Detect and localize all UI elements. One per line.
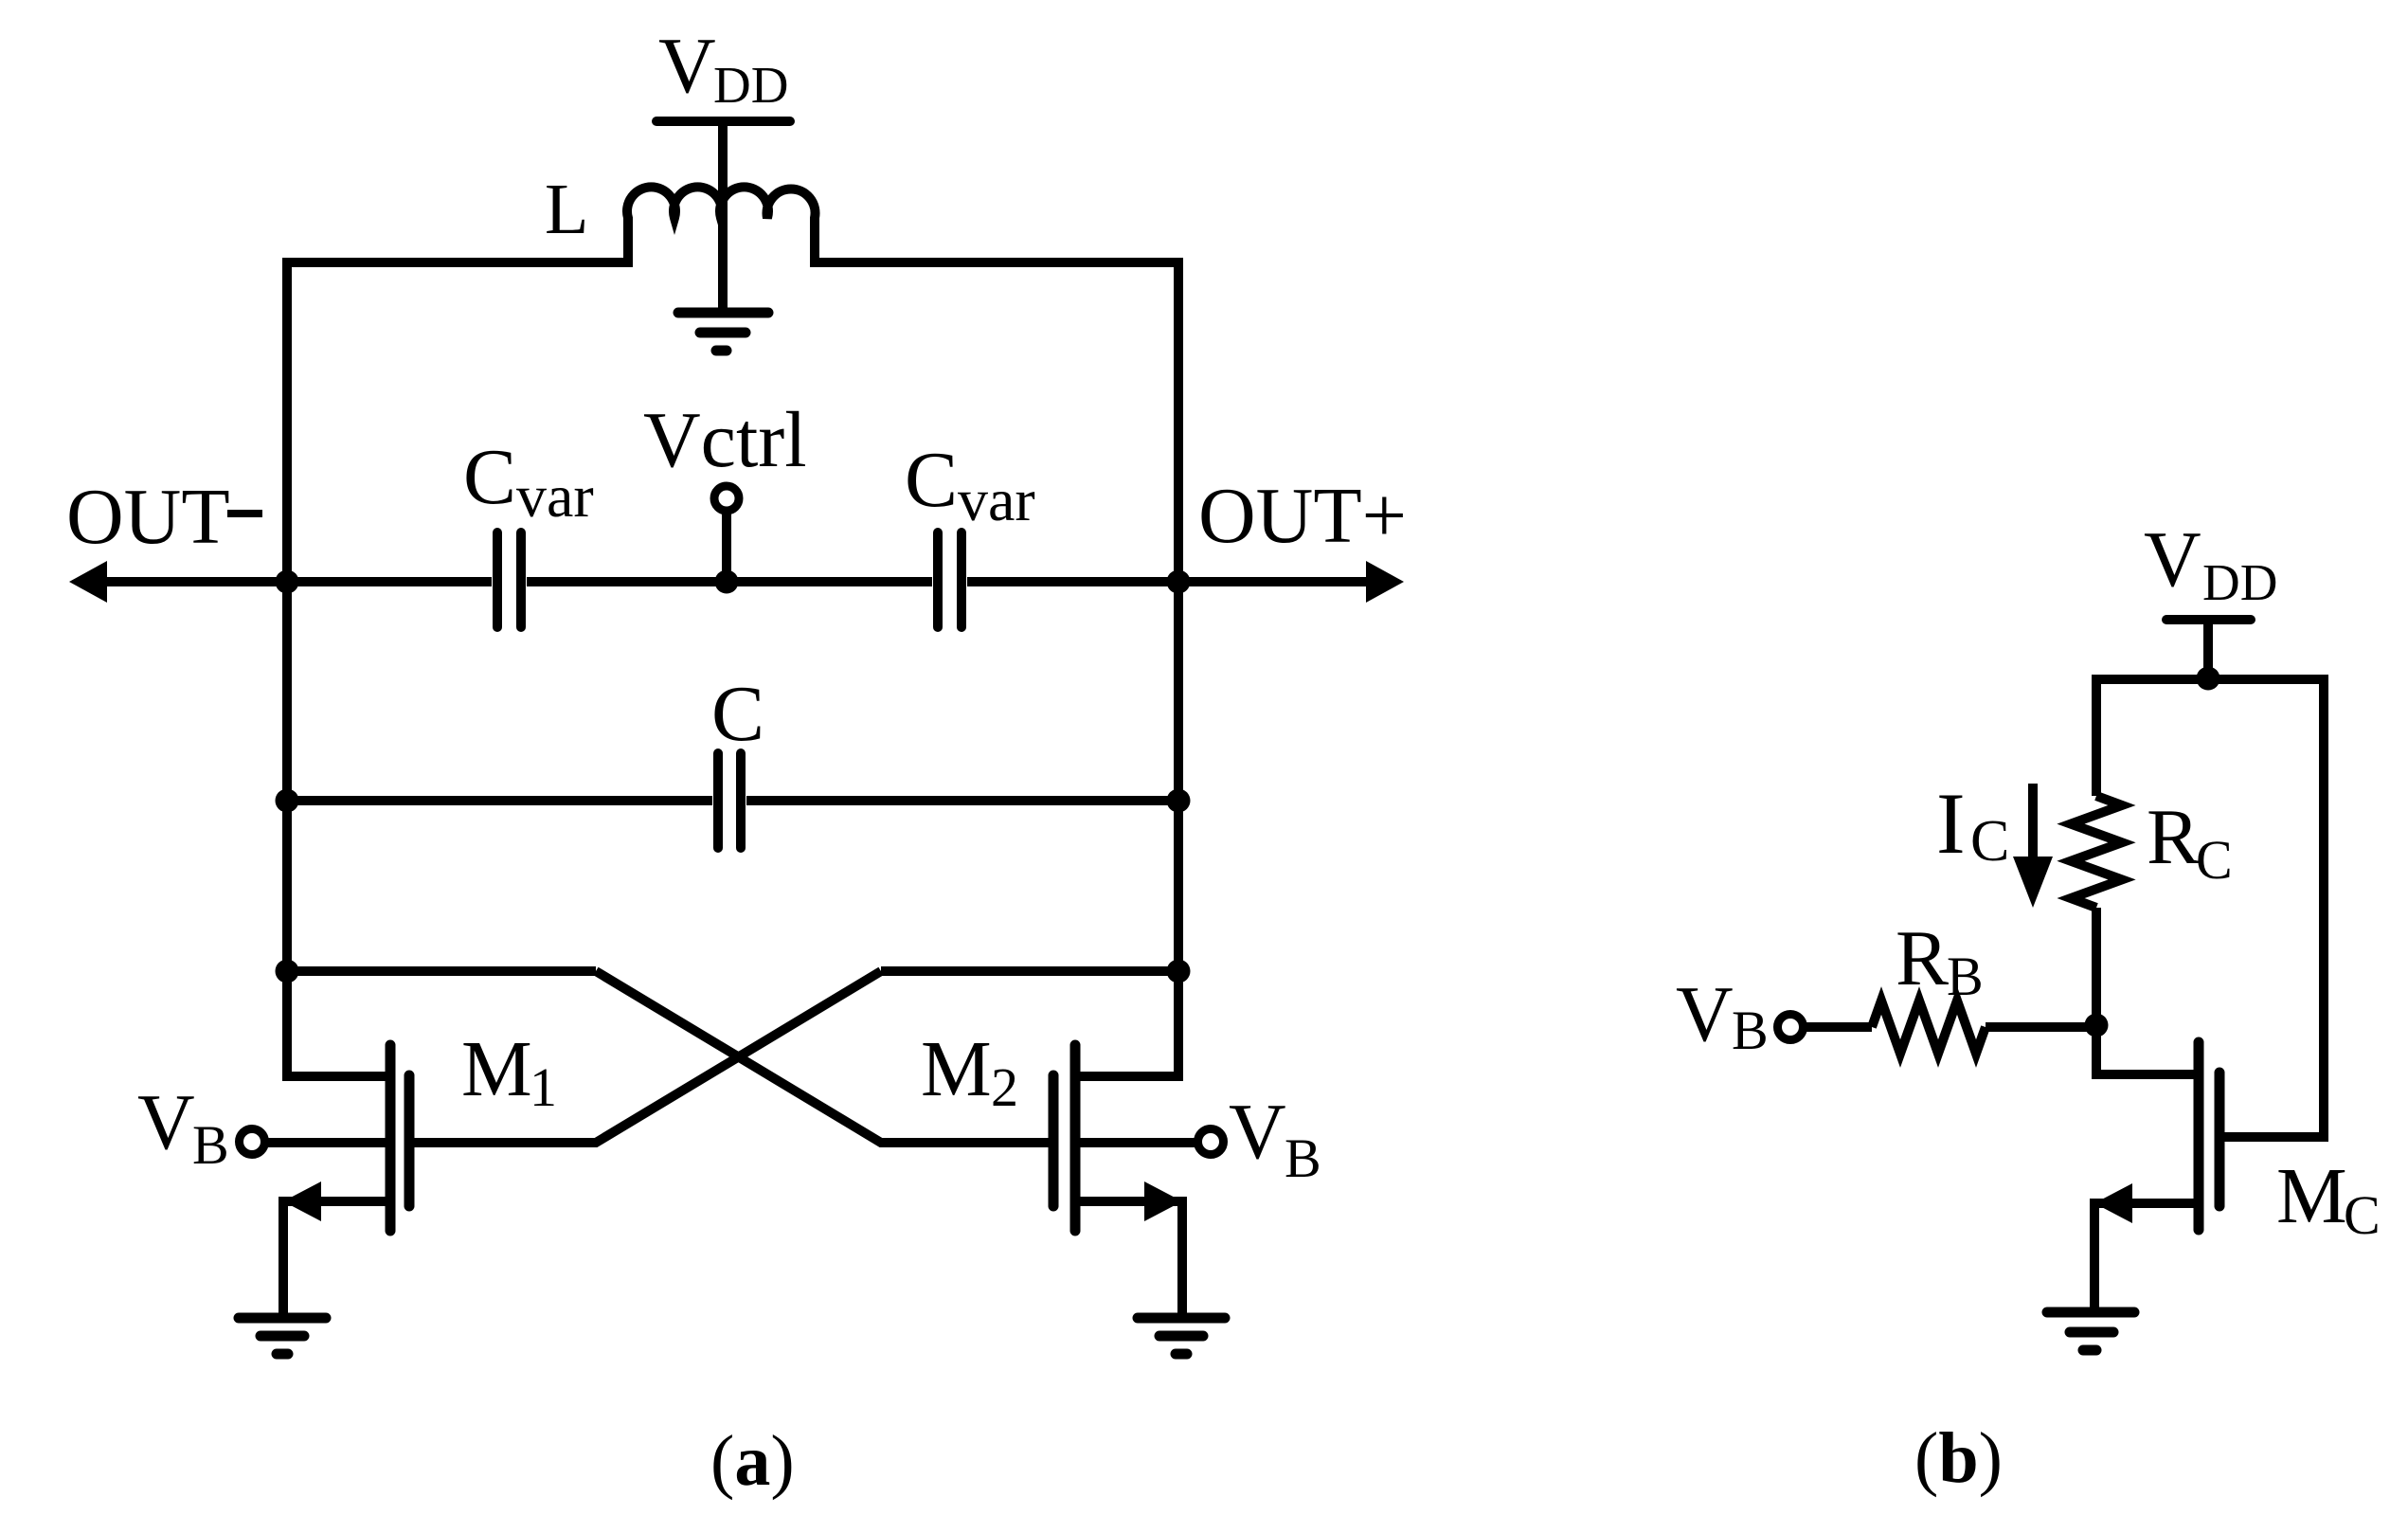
wire OUT line segments <box>90 577 492 586</box>
svg-text:V: V <box>2144 515 2201 604</box>
wire top row left <box>287 258 628 267</box>
node dot right rail C row <box>1167 789 1191 813</box>
svg-text:R: R <box>1896 914 1949 1002</box>
svg-text:var: var <box>516 462 594 530</box>
svg-text:R: R <box>2147 793 2200 881</box>
node Vctrl terminal <box>714 486 739 511</box>
node dot gate node (b) <box>2085 1014 2109 1037</box>
transistor M1 <box>390 1045 409 1231</box>
wire M2 bulk from VB <box>1080 1138 1195 1147</box>
wire top U: left corner, top, right branch, MC drain <box>2096 679 2324 1137</box>
svg-text:var: var <box>958 466 1035 533</box>
svg-text:DD: DD <box>713 56 788 114</box>
svg-text:V: V <box>1229 1088 1286 1176</box>
svg-text:(a): (a) <box>710 1421 795 1501</box>
wire C row right <box>746 796 1178 805</box>
arrowhead IC <box>2013 857 2053 908</box>
VDD supply bar (a) <box>656 117 790 126</box>
capacitor Cvar right <box>938 532 961 627</box>
capacitor Cvar left <box>497 532 521 627</box>
svg-text:C: C <box>1970 809 2009 874</box>
svg-text:(b): (b) <box>1914 1418 2003 1498</box>
svg-text:Vctrl: Vctrl <box>643 396 807 484</box>
svg-text:L: L <box>545 170 588 249</box>
svg-text:C: C <box>2344 1184 2381 1246</box>
junction dots and arrowheads <box>69 510 2220 1223</box>
wire VB to RB <box>1804 1022 1872 1032</box>
svg-text:B: B <box>1285 1127 1321 1189</box>
svg-text:B: B <box>1732 1000 1769 1061</box>
svg-text:C: C <box>463 433 516 521</box>
wire M1 bulk from VB <box>268 1138 386 1147</box>
node VB terminal (b) <box>1778 1015 1804 1040</box>
svg-text:B: B <box>192 1114 229 1176</box>
svg-text:C: C <box>711 670 764 758</box>
wire MC source to ground <box>2094 1203 2194 1308</box>
current arrow IC <box>2028 784 2038 862</box>
transistor M2 <box>1053 1045 1075 1231</box>
capacitor C <box>718 753 741 848</box>
VDD supply bar (b) <box>2166 615 2251 624</box>
arrowhead OUT- <box>69 561 107 603</box>
svg-text:OUT+: OUT+ <box>1198 472 1407 560</box>
wire cross-couple top left <box>287 966 596 976</box>
svg-text:M: M <box>2276 1152 2347 1240</box>
wire VDD stem (b) <box>2203 622 2213 676</box>
svg-text:M: M <box>921 1025 992 1113</box>
node dot Vctrl tap <box>715 570 739 594</box>
svg-text:OUT: OUT <box>66 473 230 561</box>
svg-text:V: V <box>137 1078 195 1166</box>
node dot VDD tap (b) <box>2197 667 2220 691</box>
node dot right rail cross row <box>1167 960 1191 983</box>
wire RC bottom to MC gate <box>2096 908 2194 1074</box>
svg-text:2: 2 <box>991 1056 1018 1118</box>
svg-text:C: C <box>905 436 958 524</box>
ground M1 <box>239 1318 326 1354</box>
arrowhead OUT+ <box>1366 561 1404 603</box>
arrowhead M1 source <box>283 1181 321 1221</box>
node VB terminal left <box>240 1129 265 1155</box>
wire top row right <box>815 258 1178 267</box>
svg-text:DD: DD <box>2202 553 2277 611</box>
node dot right rail OUT <box>1167 570 1191 594</box>
wire diagonal left-to-right <box>596 971 1049 1143</box>
node dot left rail C row <box>276 789 299 813</box>
svg-text:M: M <box>461 1025 532 1113</box>
svg-text:V: V <box>658 22 716 110</box>
node dot left rail cross row <box>276 960 299 983</box>
arrowhead M2 source <box>1144 1181 1182 1221</box>
wire VDD stem through inductor center tap <box>718 123 728 313</box>
svg-text:I: I <box>1936 775 1966 872</box>
wire cross-couple top right <box>881 966 1178 976</box>
resistor RC <box>2071 796 2122 908</box>
node dot left rail OUT <box>276 570 299 594</box>
transistor MC <box>2199 1042 2219 1230</box>
wire diagonal right-to-left <box>414 971 881 1143</box>
ground M2 <box>1138 1318 1225 1354</box>
arrowhead MC source <box>2094 1183 2132 1223</box>
svg-text:C: C <box>2196 829 2233 891</box>
wire M1 source to ground <box>283 1201 386 1313</box>
wire M2 source to ground <box>1080 1201 1182 1313</box>
svg-text:B: B <box>1947 946 1984 1007</box>
inductor L <box>627 187 816 267</box>
ground MC <box>2047 1312 2134 1350</box>
wire RB to gate node <box>1986 1022 2096 1032</box>
ground under inductor <box>678 313 768 351</box>
wire C row left <box>287 796 712 805</box>
wire Vctrl stem <box>722 513 731 582</box>
resistor RB <box>1872 1001 1986 1054</box>
label OUT- minus stroke <box>227 510 262 517</box>
svg-text:1: 1 <box>530 1056 557 1118</box>
svg-text:V: V <box>1676 970 1734 1058</box>
node VB terminal right <box>1198 1129 1224 1155</box>
wire left rail with M1 drain <box>287 258 386 1076</box>
wire right rail with M2 drain <box>1080 258 1178 1076</box>
